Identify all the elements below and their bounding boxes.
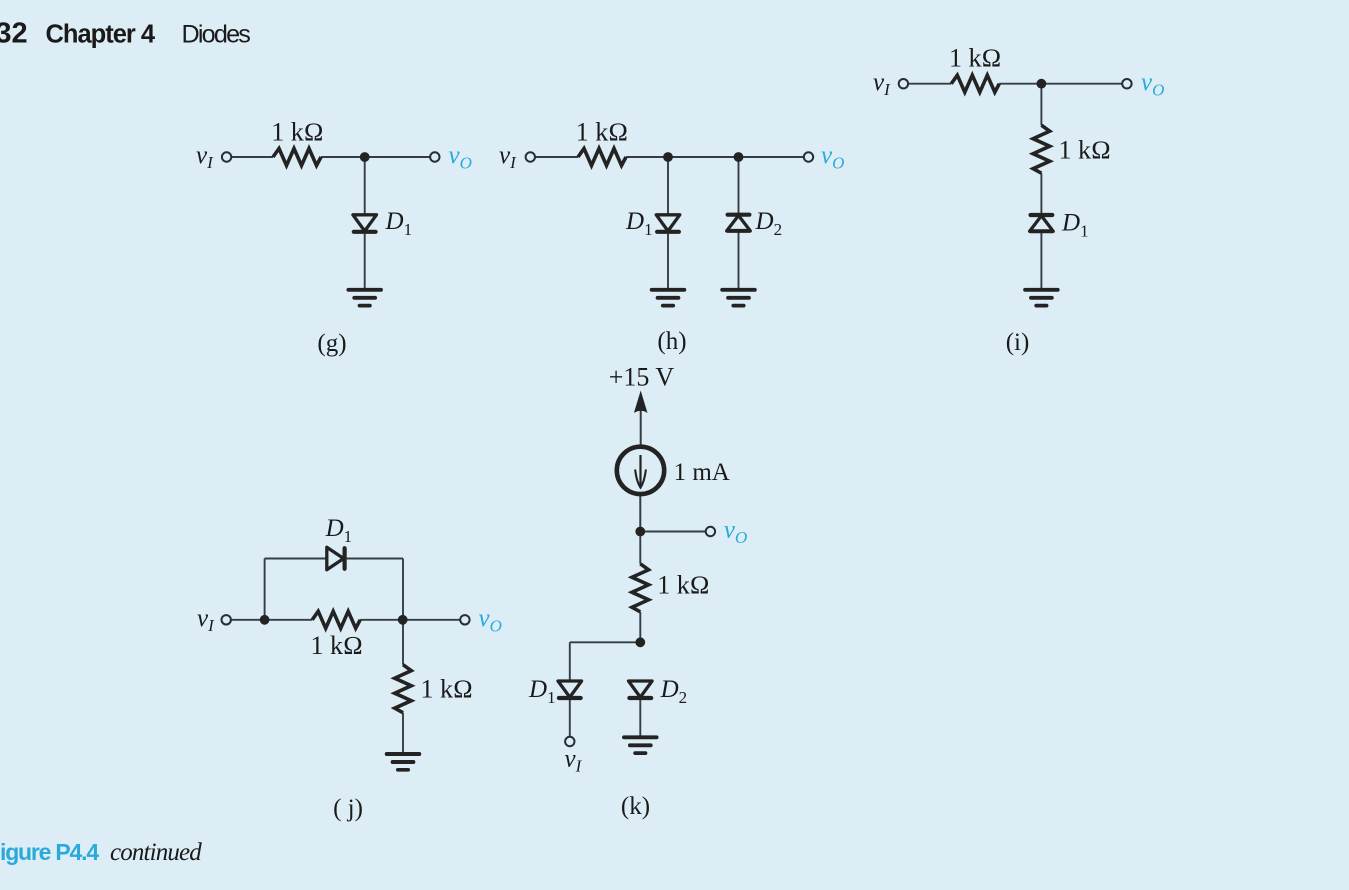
svg-text:(i): (i) xyxy=(1006,329,1030,356)
svg-text:D1: D1 xyxy=(1061,210,1089,241)
svg-text:Chapter 4: Chapter 4 xyxy=(46,21,156,49)
svg-text:Diodes: Diodes xyxy=(182,21,251,49)
svg-text:D1: D1 xyxy=(385,208,413,239)
svg-text:vI: vI xyxy=(565,746,583,776)
svg-text:(k): (k) xyxy=(621,793,650,820)
svg-text:( j): ( j) xyxy=(333,795,363,822)
svg-text:1 kΩ: 1 kΩ xyxy=(1059,136,1111,165)
svg-text:1 kΩ: 1 kΩ xyxy=(949,44,1001,73)
svg-text:vI: vI xyxy=(196,142,214,172)
svg-text:vO: vO xyxy=(821,142,844,173)
svg-text:1 kΩ: 1 kΩ xyxy=(421,675,473,704)
svg-text:1 mA: 1 mA xyxy=(674,459,730,486)
svg-text:1 kΩ: 1 kΩ xyxy=(311,631,363,660)
svg-text:vI: vI xyxy=(197,605,215,635)
svg-text:1 kΩ: 1 kΩ xyxy=(576,118,628,147)
svg-text:D1: D1 xyxy=(325,515,353,546)
svg-text:vO: vO xyxy=(724,517,747,548)
svg-text:(h): (h) xyxy=(657,328,686,355)
svg-text:igure P4.4: igure P4.4 xyxy=(0,839,99,865)
svg-text:vI: vI xyxy=(873,69,891,99)
svg-text:+15 V: +15 V xyxy=(609,363,675,392)
svg-text:(g): (g) xyxy=(317,330,346,357)
svg-text:132: 132 xyxy=(0,17,28,49)
svg-text:vO: vO xyxy=(479,605,502,636)
svg-text:D1: D1 xyxy=(625,208,653,239)
svg-text:1 kΩ: 1 kΩ xyxy=(271,118,323,147)
svg-text:continued: continued xyxy=(110,839,202,866)
svg-text:D1: D1 xyxy=(528,676,556,707)
svg-text:1 kΩ: 1 kΩ xyxy=(657,571,709,600)
svg-text:D2: D2 xyxy=(660,676,688,707)
svg-text:vI: vI xyxy=(499,142,517,172)
svg-text:vO: vO xyxy=(1141,69,1164,100)
svg-text:vO: vO xyxy=(449,142,472,173)
svg-text:D2: D2 xyxy=(755,208,783,239)
